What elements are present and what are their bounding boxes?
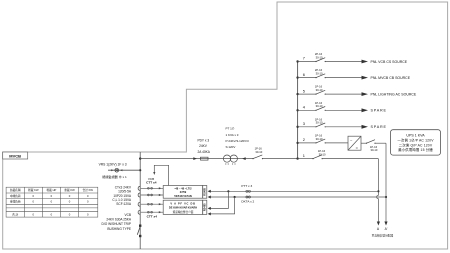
VCB breaker symbol xyxy=(137,225,141,238)
svg-text:SPARE: SPARE xyxy=(371,109,387,113)
svg-text:重排負荷: 重排負荷 xyxy=(10,200,21,204)
node: PTT tap xyxy=(377,190,379,192)
svg-text:重載 KW: 重載 KW xyxy=(64,188,75,192)
label PT xyxy=(226,127,250,150)
svg-text:30-10: 30-10 xyxy=(316,121,323,125)
svg-text:27/59: 27/59 xyxy=(180,190,187,194)
svg-text:0: 0 xyxy=(69,212,71,216)
CT secondary wire 4 xyxy=(141,211,163,213)
svg-text:A': A' xyxy=(385,227,388,231)
relay box U1 xyxy=(163,186,203,199)
svg-text:24KV: 24KV xyxy=(199,144,208,148)
svg-text:S:120V: S:120V xyxy=(226,145,236,149)
svg-text:至高頻信號分配器: 至高頻信號分配器 xyxy=(372,234,394,238)
svg-text:CTT x4: CTT x4 xyxy=(146,181,157,185)
svg-text:絕緣監視器 ⊕ x 1: 絕緣監視器 ⊕ x 1 xyxy=(102,174,127,179)
wire: DKTA line xyxy=(208,196,386,204)
svg-text:6: 6 xyxy=(303,72,305,77)
svg-text:VRS 1(2KV) 1F x 3: VRS 1(2KV) 1F x 3 xyxy=(99,163,127,167)
node: feeder/branch junction xyxy=(139,157,141,159)
svg-text:負載名稱: 負載名稱 xyxy=(10,188,21,192)
svg-text:2: 2 xyxy=(303,137,305,142)
svg-text:0: 0 xyxy=(87,200,89,204)
label VCB spec xyxy=(102,213,132,231)
svg-text:二次側 Q/P AC 120V: 二次側 Q/P AC 120V xyxy=(399,142,433,147)
branch 6 xyxy=(296,68,410,80)
branch 5 xyxy=(296,85,417,97)
svg-text:30-10: 30-10 xyxy=(316,137,323,141)
branch 2 xyxy=(296,134,348,145)
svg-text:0: 0 xyxy=(33,194,35,198)
svg-text:1 KVA x 3: 1 KVA x 3 xyxy=(226,133,239,137)
breaker CB-UPS xyxy=(361,140,386,152)
drawout arrow left xyxy=(242,157,246,160)
MVCB label box xyxy=(3,152,28,159)
current transformer CT hooks xyxy=(138,186,140,214)
svg-text:A: A xyxy=(377,227,380,231)
svg-text:PNL VCB CS SOURCE: PNL VCB CS SOURCE xyxy=(371,60,408,64)
wire: VRS tap xyxy=(108,169,140,171)
branch 3 xyxy=(296,117,386,129)
meter box U2 xyxy=(163,200,203,214)
svg-text:P:24KV/3-120V/3: P:24KV/3-120V/3 xyxy=(226,139,250,143)
svg-text:30-10: 30-10 xyxy=(255,150,262,154)
svg-text:•48 ~ 48 • LT/2: •48 ~ 48 • LT/2 xyxy=(174,186,192,190)
label CB-PT xyxy=(255,147,263,154)
rectifier/inverter box xyxy=(348,136,361,150)
label fuse PDY xyxy=(197,138,210,154)
svg-text:DE KWH KVAR KVARH: DE KWH KVAR KVARH xyxy=(169,206,197,210)
CT secondary wire 1 xyxy=(141,187,163,189)
node: PTT drop junction xyxy=(227,190,229,192)
svg-text:PDY x 3: PDY x 3 xyxy=(197,138,209,142)
wire: branch1 drop A xyxy=(377,159,380,226)
svg-text:RS485: RS485 xyxy=(204,203,207,211)
svg-text:中排負荷: 中排負荷 xyxy=(10,194,21,198)
svg-text:1: 1 xyxy=(303,153,305,158)
node: DKTA tap xyxy=(385,196,387,198)
svg-text:MVCB: MVCB xyxy=(9,154,21,159)
svg-text:0: 0 xyxy=(51,194,53,198)
svg-text:0: 0 xyxy=(87,194,89,198)
branch 7 xyxy=(296,52,407,64)
AC distribution bus xyxy=(297,62,299,159)
RS485 port U2 xyxy=(203,200,207,214)
svg-text:V A PF VC DB: V A PF VC DB xyxy=(170,202,195,206)
svg-text:30-10: 30-10 xyxy=(316,104,323,108)
svg-text:0: 0 xyxy=(51,212,53,216)
svg-text:30-10: 30-10 xyxy=(319,153,326,157)
svg-text:CTT x4: CTT x4 xyxy=(147,214,158,218)
svg-text:BUSHING TYPE: BUSHING TYPE xyxy=(107,227,131,231)
svg-text:SPARE: SPARE xyxy=(371,125,387,129)
CT secondary wire 2 xyxy=(141,194,163,196)
svg-text:50/51N 51/51N: 50/51N 51/51N xyxy=(174,194,192,198)
svg-text:4: 4 xyxy=(303,105,306,110)
RS485 port U1 xyxy=(203,186,207,199)
node: DKTA drop junction xyxy=(234,196,236,198)
svg-text:0: 0 xyxy=(69,200,71,204)
wire: main horizontal to AC bus xyxy=(140,158,297,160)
svg-text:SCF:120A: SCF:120A xyxy=(116,202,132,206)
svg-text:=: = xyxy=(356,145,359,150)
node: VRS tap junction xyxy=(139,169,141,171)
svg-text:30-10: 30-10 xyxy=(316,88,323,92)
svg-text:最小供電時間 15 分鐘: 最小供電時間 15 分鐘 xyxy=(398,147,433,152)
wire: PTT line xyxy=(208,184,379,193)
svg-text:PTT x 3: PTT x 3 xyxy=(241,184,252,188)
svg-text:資訊輸出整合介面: 資訊輸出整合介面 xyxy=(173,210,194,214)
surge arrester VRS xyxy=(111,168,122,172)
wire: UPS drop A' xyxy=(384,143,387,225)
svg-text:輕載 HP: 輕載 HP xyxy=(46,188,56,192)
svg-text:24KV 630A 25KA: 24KV 630A 25KA xyxy=(106,218,132,222)
svg-text:PT 1∅: PT 1∅ xyxy=(226,127,235,131)
main feeder vertical wire xyxy=(139,152,141,249)
svg-text:7: 7 xyxy=(303,56,305,61)
svg-text:30-10: 30-10 xyxy=(370,148,377,152)
svg-text:30-10: 30-10 xyxy=(316,72,323,76)
svg-text:UPS 1 KVA: UPS 1 KVA xyxy=(406,134,425,138)
load table xyxy=(6,187,98,217)
wire: DKTA to U2 RS485 xyxy=(208,197,235,215)
svg-text:2A 40KA: 2A 40KA xyxy=(197,150,210,154)
svg-text:DKTA x 2: DKTA x 2 xyxy=(241,199,254,203)
svg-text:合計 KW: 合計 KW xyxy=(82,188,93,192)
load table text xyxy=(10,188,94,216)
svg-text:0: 0 xyxy=(87,212,89,216)
svg-text:PNL MVCB CB SOURCE: PNL MVCB CB SOURCE xyxy=(371,76,411,80)
svg-text:一次側 1∅/P AC 120V: 一次側 1∅/P AC 120V xyxy=(397,138,434,143)
svg-text:PNL LIGHTING AC SOURCE: PNL LIGHTING AC SOURCE xyxy=(371,92,417,96)
fuse PDY xyxy=(201,157,209,160)
svg-text:合 計: 合 計 xyxy=(12,212,18,216)
svg-text:RS485: RS485 xyxy=(204,187,207,195)
potential transformer PT xyxy=(223,155,237,165)
trip wire from relay to VCB xyxy=(153,165,168,185)
svg-text:0: 0 xyxy=(69,194,71,198)
UPS info box xyxy=(391,130,441,155)
svg-text:~: ~ xyxy=(350,138,353,143)
svg-text:0: 0 xyxy=(33,200,35,204)
svg-text:輕載 KW: 輕載 KW xyxy=(28,188,39,192)
CT secondary wire 3 xyxy=(141,203,163,205)
branch 4 xyxy=(296,101,386,113)
svg-text:0: 0 xyxy=(51,200,53,204)
drawout arrow right xyxy=(193,157,197,160)
svg-text:0: 0 xyxy=(33,212,35,216)
breaker CB-PT xyxy=(252,155,263,159)
branch 1 xyxy=(296,149,378,160)
label CT spec xyxy=(112,186,131,206)
svg-text:VCB: VCB xyxy=(124,213,131,217)
svg-text:3: 3 xyxy=(303,121,305,126)
svg-text:5: 5 xyxy=(303,88,305,93)
wire: PTT to U2 RS485 xyxy=(208,191,229,210)
svg-text:D/O W/SHUNT TRIP: D/O W/SHUNT TRIP xyxy=(102,222,131,226)
svg-text:30-10: 30-10 xyxy=(316,55,323,59)
